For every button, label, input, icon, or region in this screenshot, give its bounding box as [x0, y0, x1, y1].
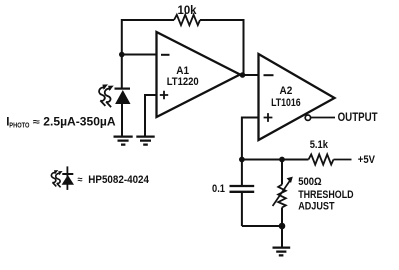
potentiometer wiper arrow [273, 177, 293, 206]
legend photodiode cathode bar [62, 173, 73, 175]
potentiometer 500 ohm bottom lead [281, 208, 283, 227]
resistor R2 5.1k [309, 154, 334, 164]
wire feedback right vertical [243, 19, 245, 75]
resistor R1 10k [174, 15, 200, 25]
capacitor C1 bottom lead [241, 192, 243, 226]
wire summing node vertical [121, 19, 123, 88]
node A1 output junction [240, 72, 246, 78]
node threshold left junction [239, 157, 245, 163]
wire feedback top left segment [122, 19, 174, 21]
svg-text:≈: ≈ [78, 174, 83, 184]
ground under photodiode [114, 137, 133, 145]
svg-text:2.5µA-350µA: 2.5µA-350µA [43, 117, 115, 129]
svg-text:ADJUST: ADJUST [298, 200, 335, 212]
A2 minus sign [264, 74, 274, 76]
svg-text:5.1k: 5.1k [310, 139, 329, 151]
A1 minus sign [161, 54, 170, 56]
svg-text:10k: 10k [178, 5, 198, 17]
label approx equals HP5082-4024 [78, 174, 150, 186]
svg-text:LT1220: LT1220 [167, 76, 199, 88]
node summing junction [119, 52, 125, 58]
svg-text:PHOTO: PHOTO [9, 120, 29, 129]
A2 inverted output circle [305, 115, 310, 120]
wire A2 noninverting to threshold node [242, 118, 259, 160]
svg-text:THRESHOLD: THRESHOLD [298, 189, 353, 201]
op-amp A1 [157, 32, 241, 117]
svg-text:HP5082-4024: HP5082-4024 [88, 174, 149, 186]
svg-text:0.1: 0.1 [212, 183, 225, 195]
svg-text:LT1016: LT1016 [271, 97, 301, 109]
comparator A2 [259, 54, 335, 140]
svg-text:A2: A2 [280, 85, 293, 97]
legend light arrows [51, 170, 62, 187]
capacitor C1 0.1 top lead [241, 160, 243, 186]
wire photodiode anode to ground [121, 103, 123, 136]
potentiometer 500 ohm zigzag [278, 185, 286, 208]
wire threshold rail [242, 159, 309, 161]
wire feedback top right segment [200, 19, 244, 21]
svg-text:≈: ≈ [33, 117, 41, 128]
legend photodiode triangle [62, 175, 74, 185]
photodiode D1 cathode bar [115, 87, 131, 89]
wire A1 output to A2 [240, 74, 259, 76]
wire to bottom ground [281, 226, 283, 247]
potentiometer 500 ohm top lead [281, 160, 283, 185]
photodiode D1 triangle [115, 90, 130, 104]
A1 plus sign [160, 91, 168, 99]
node bottom junction [279, 223, 286, 230]
wire output [311, 117, 335, 119]
ground bottom right [273, 248, 291, 256]
ground under A1 plus input [136, 137, 154, 145]
A2 plus sign [264, 113, 273, 122]
label IPHOTO value [6, 117, 115, 130]
wire A1 noninverting to ground [145, 95, 157, 136]
wire inverting input A1 [122, 54, 157, 56]
svg-text:OUTPUT: OUTPUT [338, 112, 378, 124]
wire to +5V [334, 159, 352, 161]
wire bottom rail cap to pot [242, 225, 282, 227]
svg-text:500Ω: 500Ω [298, 176, 322, 188]
capacitor C1 plates [230, 186, 255, 192]
svg-text:+5V: +5V [358, 154, 376, 166]
node pot top junction [279, 157, 285, 163]
legend photodiode symbol wire [66, 166, 68, 190]
light arrows at photodiode [99, 84, 114, 107]
